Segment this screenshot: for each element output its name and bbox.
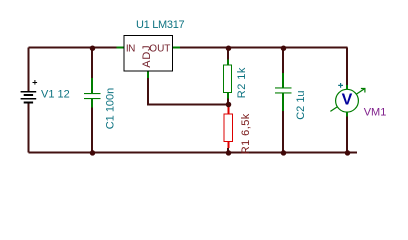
wire C1 branch	[91, 48, 93, 153]
wire bottom rail	[29, 152, 358, 154]
svg-text:C1 100n: C1 100n	[105, 88, 117, 130]
node top C1	[90, 45, 96, 51]
IC U1 LM317 regulator (pins IN, OUT, ADJ)	[117, 36, 181, 79]
svg-text:R2 1k: R2 1k	[236, 67, 248, 98]
svg-text:R1 6,5k: R1 6,5k	[240, 113, 252, 154]
node bottom C2	[281, 150, 287, 156]
wire top rail left segment	[29, 47, 117, 49]
voltmeter VM1	[330, 83, 365, 117]
node mid ADJ	[226, 102, 232, 108]
capacitor C2	[282, 73, 284, 111]
node bottom R	[226, 150, 232, 156]
capacitor C1	[91, 78, 93, 108]
wire C2 branch	[282, 48, 284, 153]
node bottom VM	[345, 150, 351, 156]
wire resistor branch	[227, 48, 229, 153]
wire voltmeter branch	[346, 48, 348, 153]
resistor R2	[223, 60, 231, 99]
svg-text:V1 12: V1 12	[41, 89, 70, 101]
node top C2	[281, 45, 287, 51]
svg-text:VM1: VM1	[364, 107, 387, 119]
svg-text:IN: IN	[126, 44, 135, 55]
svg-text:C2 1u: C2 1u	[295, 90, 307, 119]
wire ADJ to mid node	[148, 78, 228, 104]
resistor R1	[224, 107, 232, 148]
wire left branch vertical (battery branch)	[28, 48, 30, 153]
node bottom C1	[90, 150, 96, 156]
svg-text:U1 LM317: U1 LM317	[136, 19, 185, 31]
svg-text:ADJ: ADJ	[141, 45, 153, 68]
wire top rail right segment	[180, 47, 348, 49]
svg-text:V: V	[342, 92, 353, 109]
battery V1	[21, 80, 37, 104]
node top R	[226, 45, 232, 51]
